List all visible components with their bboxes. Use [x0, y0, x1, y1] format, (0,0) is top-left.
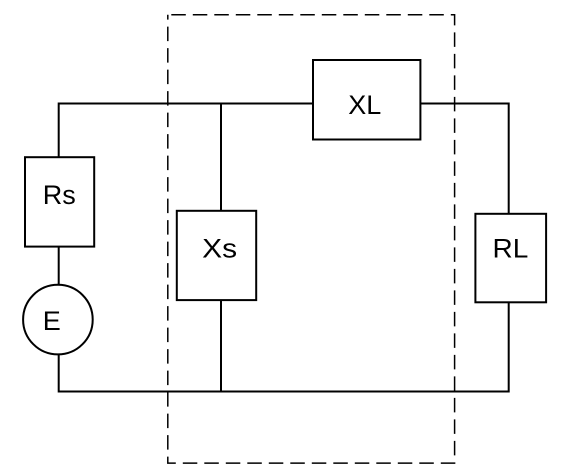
wire: Rs bottom to E top	[58, 246, 60, 286]
wire: XL output to right rail down to RL top	[420, 104, 508, 215]
svg-text:Xs: Xs	[202, 234, 237, 264]
reactance Xs	[177, 211, 256, 300]
svg-text:RL: RL	[493, 234, 529, 264]
svg-text:XL: XL	[348, 90, 381, 120]
inductive reactance XL	[313, 60, 420, 140]
source E	[23, 285, 93, 355]
wire: Xs bottom to bottom rail	[220, 299, 222, 393]
wire: E bottom lead, bottom rail, RL bottom lead	[59, 302, 509, 392]
wire: top rail junction down to Xs top	[220, 103, 222, 213]
resistor Rs	[25, 157, 94, 246]
load RL	[475, 214, 546, 302]
svg-text:E: E	[43, 306, 61, 336]
matching network boundary (dashed box)	[168, 15, 455, 463]
svg-text:Rs: Rs	[43, 180, 76, 210]
wire: Rs top lead up and top rail to XL left	[59, 104, 313, 158]
